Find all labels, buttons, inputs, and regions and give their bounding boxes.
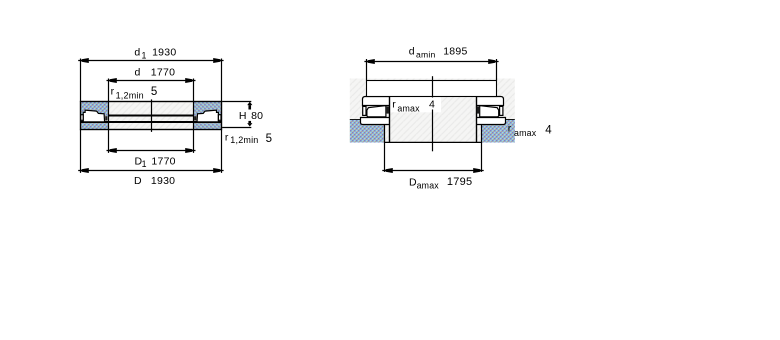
housing spigot block outline <box>385 125 482 143</box>
extension line d/D1 right (x=193.5) <box>193 79 195 153</box>
bore edge line left <box>389 97 391 143</box>
lower washer (housing washer) left part <box>361 118 390 125</box>
bottom washer section (blue) right <box>193 123 221 129</box>
cage section left inner (dark) <box>105 116 107 120</box>
left end section assembly <box>81 102 109 129</box>
right end section assembly (mirror) <box>193 102 221 129</box>
center line left view <box>151 99 153 131</box>
dimension d_amin 1895 <box>364 46 498 81</box>
svg-text:1930: 1930 <box>152 47 176 59</box>
dimension H 80 <box>222 102 263 128</box>
label r1,2min 5 lower <box>225 131 272 145</box>
extension line d/D1 left (x=108.5) <box>108 79 110 153</box>
housing shoulder right (blue) <box>481 120 515 143</box>
svg-text:1: 1 <box>142 159 147 169</box>
cage left outer <box>363 106 366 115</box>
svg-text:r: r <box>111 85 115 97</box>
shoulder top edge line left <box>350 119 361 121</box>
washer bore line upper (thick) <box>109 114 194 116</box>
upper washer (shaft washer) right part <box>477 97 504 106</box>
white box behind r_amax text <box>390 97 441 112</box>
svg-text:4: 4 <box>429 99 435 111</box>
shaft support plate <box>367 81 497 97</box>
top washer section (blue) right <box>193 102 221 116</box>
label r_amax 4 right <box>508 122 553 138</box>
svg-text:d: d <box>134 47 140 59</box>
tapered roller right <box>197 110 218 122</box>
svg-text:d: d <box>409 46 415 58</box>
svg-text:1770: 1770 <box>151 156 175 168</box>
svg-text:5: 5 <box>266 133 272 145</box>
cage section right outer <box>218 115 221 121</box>
svg-text:80: 80 <box>251 110 263 122</box>
bearing outline rectangle <box>81 102 222 130</box>
cage section right inner (dark) <box>194 116 196 120</box>
center line right view <box>432 76 434 97</box>
svg-text:1930: 1930 <box>151 175 175 187</box>
bore edge line right <box>476 97 478 143</box>
label r1,2min 5 upper <box>111 85 158 100</box>
dimension D1 1770 <box>107 148 196 169</box>
dimension d 1770 <box>107 67 196 83</box>
washer bore line lower (thick) <box>81 121 222 123</box>
bottom washer section (blue) left <box>81 123 109 129</box>
svg-text:amax: amax <box>417 180 440 190</box>
shoulder top edge line right <box>505 119 515 121</box>
svg-text:1: 1 <box>142 51 147 61</box>
bearing body hatched interior <box>81 102 222 130</box>
svg-text:4: 4 <box>545 124 552 136</box>
cage right inner dark <box>477 106 479 113</box>
svg-text:H: H <box>239 110 247 122</box>
svg-text:1,2min: 1,2min <box>230 135 258 145</box>
svg-text:amax: amax <box>397 104 420 114</box>
svg-text:1,2min: 1,2min <box>116 90 144 100</box>
cage right outer <box>500 106 503 115</box>
label r_amax 4 center <box>392 98 435 113</box>
dimension d1 1930 <box>78 47 223 63</box>
svg-text:1795: 1795 <box>447 176 472 188</box>
upper washer (shaft washer) left part <box>363 97 390 106</box>
cage section left outer <box>81 115 84 121</box>
dimension D_amax 1795 <box>382 142 483 190</box>
roller right (right view, mirror) <box>477 106 503 117</box>
svg-text:d: d <box>135 67 141 79</box>
svg-text:1770: 1770 <box>151 67 175 79</box>
roller left (right view) <box>363 106 389 117</box>
dimension D 1930 <box>78 168 223 187</box>
lower washer (housing washer) right part <box>477 118 506 125</box>
svg-text:D: D <box>134 175 142 187</box>
tapered roller left <box>83 110 104 122</box>
cage left inner dark <box>387 106 389 113</box>
svg-text:r: r <box>508 122 512 134</box>
housing shoulder left (blue) <box>350 120 385 143</box>
svg-text:1895: 1895 <box>443 46 467 58</box>
top washer section (blue) left <box>81 102 109 116</box>
svg-text:amax: amax <box>514 128 537 138</box>
svg-text:r: r <box>392 98 396 110</box>
svg-text:amin: amin <box>416 50 435 60</box>
abutment background hatched region <box>350 79 515 143</box>
extension line d1/D left (x=80.5) <box>80 59 82 102</box>
extension line d1/D right (x=221.5) <box>221 59 223 102</box>
svg-text:r: r <box>225 131 229 143</box>
svg-text:5: 5 <box>151 86 157 98</box>
